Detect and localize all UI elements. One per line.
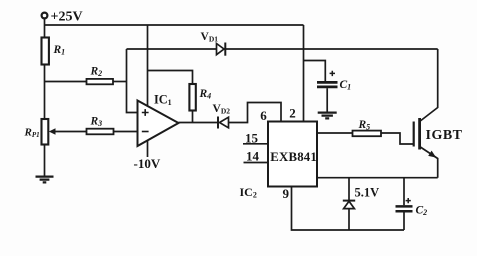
svg-text:2: 2: [289, 106, 296, 121]
svg-text:6: 6: [260, 108, 267, 123]
wire R3 to minus input: [114, 131, 138, 133]
diode VD2: [220, 117, 229, 128]
ground: [36, 177, 54, 183]
svg-text:-10V: -10V: [134, 156, 161, 171]
wire output to VD2: [179, 122, 219, 124]
op-amp U1: [138, 101, 179, 147]
svg-text:EXB841: EXB841: [270, 150, 317, 164]
wire node to R2: [45, 81, 87, 83]
C1 plus sign: [330, 71, 335, 76]
plus sign: [142, 109, 149, 116]
emitter arrow: [428, 151, 436, 158]
wire R5 to gate: [381, 133, 414, 144]
wire box to R5: [317, 132, 353, 134]
zener VZ wire: [348, 178, 350, 200]
svg-text:9: 9: [283, 186, 290, 201]
emitter rail: [317, 177, 438, 179]
svg-text:IGBT: IGBT: [426, 128, 463, 143]
resistor R1: [42, 38, 49, 65]
resistor R3: [87, 129, 114, 135]
terminal +25V: [42, 13, 48, 19]
wire C2 bottom: [403, 212, 405, 230]
wiper arrow: [49, 128, 56, 134]
wire to R4 pullup: [148, 71, 193, 85]
pin2 wire from rail: [303, 25, 305, 122]
pin9 wire: [292, 187, 405, 231]
wire R4 to output: [192, 111, 194, 123]
resistor R5: [353, 131, 382, 137]
zener to bottom wire: [348, 209, 350, 230]
IGBT emitter: [420, 147, 438, 178]
wire R2 to vertical: [113, 81, 127, 83]
svg-text:5.1V: 5.1V: [355, 186, 380, 200]
resistor R4: [189, 84, 195, 111]
pin15 stub: [243, 143, 268, 145]
svg-text:+25V: +25V: [51, 10, 83, 25]
IC2 EXB841 box: [268, 122, 317, 187]
IGBT collector: [420, 49, 438, 122]
op-amp V+ supply wire: [147, 25, 149, 106]
wire vertical to plus input: [127, 49, 138, 113]
wire RP to ground: [44, 145, 46, 176]
feedback rail y49: [127, 48, 438, 50]
wire VD2 to pin6: [229, 103, 282, 123]
IGBT gate bar: [413, 122, 415, 147]
C2 plus sign: [406, 198, 411, 203]
zener 5.1V bar: [343, 200, 355, 202]
wire R1 to RP: [44, 65, 46, 120]
potentiometer RP1: [42, 119, 49, 145]
capacitor C2: [396, 206, 413, 211]
resistor R2: [87, 79, 114, 84]
capacitor C1: [317, 82, 338, 87]
minus sign: [142, 131, 149, 133]
svg-text:15: 15: [245, 130, 259, 145]
diode VD2 cathode bar: [217, 117, 219, 129]
wire wiper to R3: [55, 131, 87, 133]
wire to C1: [304, 61, 326, 82]
IGBT body bar: [418, 118, 421, 150]
wire C1 to ground: [326, 88, 328, 111]
pin14 stub: [244, 162, 269, 164]
power rail +25V: [45, 24, 304, 26]
wire C2 top: [403, 178, 405, 206]
ground C1: [318, 113, 337, 119]
op-amp V- wire: [147, 141, 149, 157]
svg-text:14: 14: [246, 149, 260, 164]
zener 5.1V: [344, 201, 355, 208]
wire terminal to rail: [44, 19, 46, 38]
diode VD1: [217, 44, 225, 55]
diode VD1 cathode bar: [224, 43, 226, 56]
